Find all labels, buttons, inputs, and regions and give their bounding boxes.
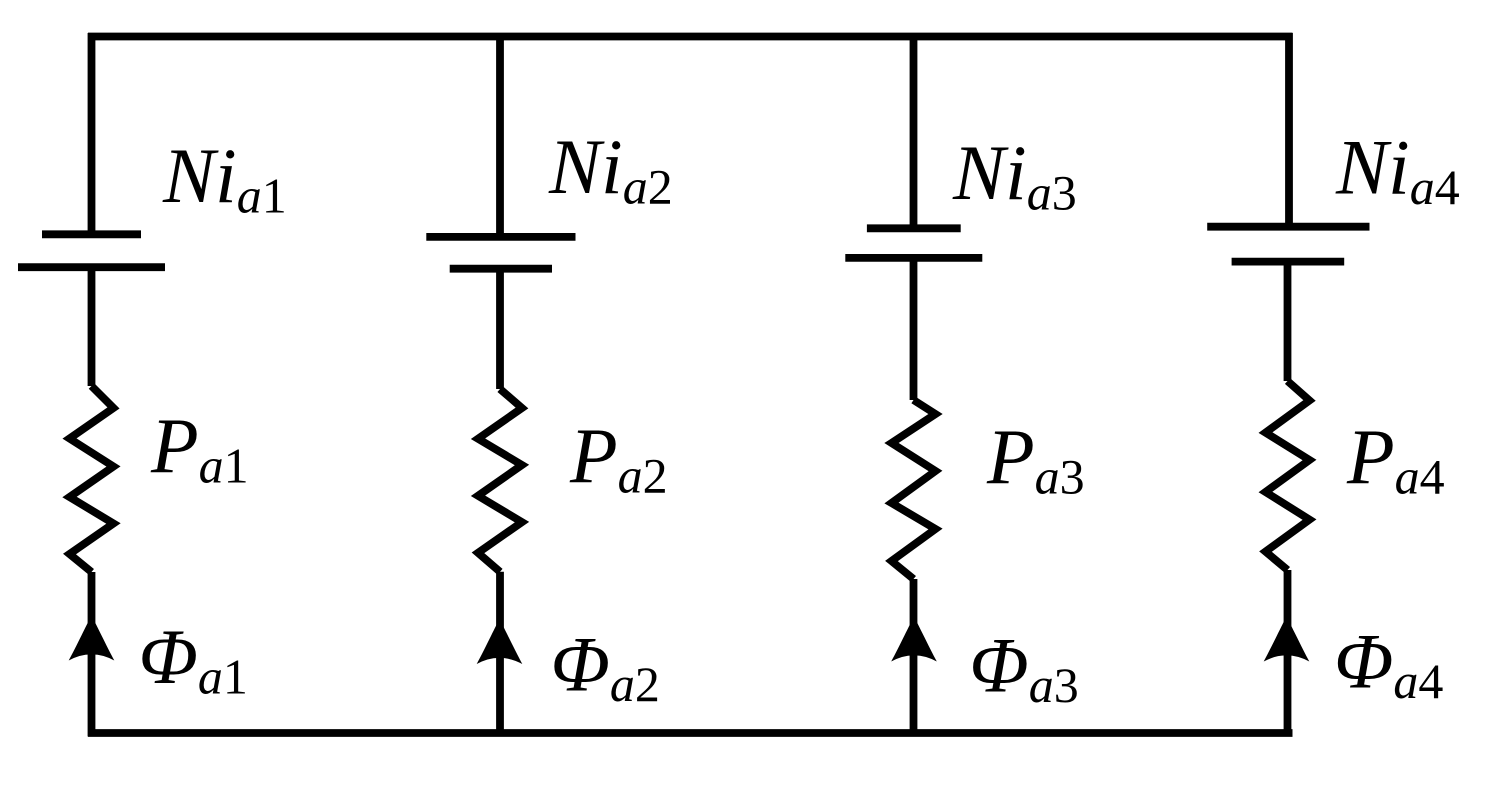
resistor Pa3 zigzag [892, 400, 936, 579]
wire top rail [88, 33, 1293, 41]
wire branch1 bottom segment [88, 572, 96, 737]
flux arrow head branch2 [477, 619, 523, 664]
flux arrow head branch1 [69, 616, 115, 661]
wire branch2 top segment [496, 33, 504, 240]
wire branch2 middle segment [496, 269, 504, 389]
wire branch2 bottom segment [496, 572, 504, 737]
resistor Pa4 zigzag [1266, 381, 1310, 570]
wire branch1 middle segment [88, 267, 96, 386]
resistor Pa1 zigzag [70, 386, 114, 572]
MMF source Nia3 plates [867, 224, 961, 232]
wire branch4 bottom segment [1284, 570, 1292, 737]
wire branch4 middle segment [1284, 262, 1292, 381]
wire branch4 top segment [1285, 33, 1293, 230]
MMF source Nia2 plates [426, 233, 575, 241]
wire branch3 middle segment [910, 258, 918, 400]
flux arrow head branch4 [1264, 617, 1310, 662]
wire branch3 bottom segment [910, 579, 918, 737]
wire branch1 top segment [88, 33, 96, 237]
wire bottom rail [88, 729, 1293, 737]
flux arrow head branch3 [891, 617, 937, 662]
MMF source Nia4 plates [1207, 223, 1369, 231]
MMF source Nia1 plates [42, 230, 141, 238]
wire branch3 top segment [910, 33, 918, 231]
resistor Pa2 zigzag [478, 389, 522, 572]
